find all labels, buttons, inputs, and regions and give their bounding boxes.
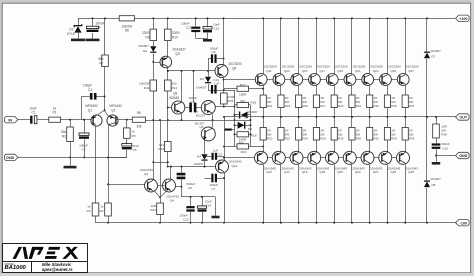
svg-text:R11: R11: [144, 86, 150, 90]
wire emitter Q15: [298, 85, 300, 95]
svg-text:R12: R12: [150, 208, 156, 212]
svg-text:IN: IN: [8, 118, 12, 122]
resistor R29 1R 5W: [331, 95, 337, 108]
svg-text:Q5: Q5: [176, 52, 180, 56]
wire R16 to first bottom emitter column: [249, 146, 264, 148]
wire collector Q18 to bottom rail: [316, 165, 318, 223]
svg-text:2SC5200: 2SC5200: [353, 65, 366, 69]
resistor R21 1R 5W: [260, 95, 266, 108]
wire R1 to Q1 base: [61, 119, 93, 121]
wire R25 to OUT rail: [298, 108, 300, 118]
resistor R14 3k3: [165, 80, 172, 91]
wire emitter Q27: [405, 85, 407, 95]
svg-text:R16: R16: [241, 150, 247, 154]
wire collector column Q13: [280, 18, 282, 74]
svg-text:33k: 33k: [136, 125, 142, 129]
wire D3 line y90: [208, 90, 235, 92]
capacitor C14 10uF: [202, 197, 204, 206]
svg-text:Q11: Q11: [266, 69, 272, 73]
capacitor C3 100pF feedback: [82, 96, 90, 98]
svg-text:3k3: 3k3: [239, 140, 244, 144]
wire Q1/Q2 emitters join: [96, 110, 109, 116]
resistor R36 1R 5W: [402, 128, 408, 141]
svg-text:R4: R4: [100, 209, 104, 213]
wire OUT rail to R26: [316, 117, 318, 128]
svg-text:33k: 33k: [61, 130, 67, 134]
svg-text:Q12: Q12: [266, 170, 272, 174]
svg-text:Q16: Q16: [302, 170, 308, 174]
wire R26 to Q18: [316, 140, 318, 152]
wire C10/C15 join to ground: [196, 38, 208, 40]
capacitor C15 10uF rail: [207, 18, 209, 26]
diode D5 1N4007: [235, 114, 240, 116]
wire collector Q22 to bottom rail: [351, 165, 353, 223]
svg-text:R25: R25: [303, 104, 309, 108]
svg-text:C16: C16: [442, 146, 448, 150]
svg-text:Q26: Q26: [390, 170, 396, 174]
svg-text:R38: R38: [441, 133, 447, 137]
svg-text:GND: GND: [6, 156, 15, 160]
svg-text:2SC5200: 2SC5200: [264, 65, 277, 69]
wire Q2 collector down: [108, 126, 110, 204]
wire R24 to Q16: [298, 140, 300, 152]
svg-text:R36: R36: [409, 137, 415, 141]
diode D2 1N4007: [153, 41, 155, 47]
svg-text:Q23: Q23: [373, 69, 379, 73]
wire R23 to OUT rail: [280, 108, 282, 118]
svg-text:D2: D2: [143, 49, 147, 53]
svg-text:C15: C15: [214, 26, 220, 30]
wire R21 to OUT rail: [263, 108, 265, 118]
wire top +V rail: [78, 18, 119, 20]
capacitor C11 1uF: [211, 85, 213, 94]
resistor R24 1R 5W: [296, 128, 302, 141]
svg-text:R28: R28: [338, 137, 344, 141]
wire top output base bus: [224, 79, 410, 81]
ground bar C15: [203, 39, 212, 42]
ground symbol on gnd line: [70, 157, 72, 165]
wire R12 top from y120 line: [160, 120, 162, 203]
capacitor C9 100uF bias bypass: [185, 107, 190, 109]
resistor R16 3k3: [224, 146, 237, 148]
svg-text:R29: R29: [338, 104, 344, 108]
capacitor C10 100nF rail: [195, 18, 197, 26]
transistor Q25 2SC5200: [380, 74, 392, 86]
svg-text:Q6: Q6: [199, 125, 203, 129]
transistor Q19 2SC5200: [326, 74, 338, 86]
svg-text:Q9: Q9: [232, 66, 236, 70]
transistor Q11 2SC5200: [255, 74, 267, 86]
wire feedback line y120 long: [146, 120, 251, 122]
svg-text:D7: D7: [432, 55, 436, 59]
svg-text:1N4007: 1N4007: [430, 49, 441, 53]
resistor R31 1R 5W: [349, 95, 355, 108]
transistor Q22 2SA1943: [343, 151, 356, 164]
svg-text:R23: R23: [285, 104, 291, 108]
label BA1000: [5, 265, 26, 271]
svg-text:C3: C3: [88, 88, 92, 92]
svg-text:Q3: Q3: [144, 172, 148, 176]
capacitor C16 100nF zobel: [436, 138, 438, 143]
resistor R6 33k feedback: [132, 117, 145, 122]
svg-text:R5: R5: [132, 134, 136, 138]
svg-text:Q15: Q15: [302, 69, 308, 73]
diode D4 1N4007: [201, 154, 207, 160]
terminal +100 supply: [456, 15, 470, 21]
diode D8 1N4007 clamp: [426, 117, 428, 181]
svg-text:220R: 220R: [172, 31, 180, 35]
svg-text:R27: R27: [320, 104, 326, 108]
svg-text:Q1: Q1: [88, 109, 92, 113]
svg-text:Q13: Q13: [284, 69, 290, 73]
capacitor C5 47uF: [126, 138, 128, 143]
wire R3 to bottom rail: [95, 216, 97, 223]
svg-text:2SC5200: 2SC5200: [406, 65, 419, 69]
transistor Q6 BC327: [201, 127, 215, 141]
svg-text:R26: R26: [320, 137, 326, 141]
ladder left spine: [234, 90, 236, 146]
capacitor C1 10uF input: [30, 116, 37, 124]
zobel network column: [436, 117, 438, 124]
wire R14 to Q8 base node: [167, 91, 169, 120]
svg-text:R3: R3: [87, 209, 91, 213]
transistor Q14 2SA1943: [272, 151, 285, 164]
svg-text:C1: C1: [31, 110, 35, 114]
ground bar for D1: [71, 39, 85, 42]
capacitor C7 100uF: [205, 178, 212, 180]
svg-text:ZY15: ZY15: [67, 32, 75, 36]
terminal GND output: [456, 152, 470, 158]
svg-text:D6: D6: [248, 127, 252, 131]
wire y197 line: [182, 196, 216, 198]
wire VAS bus y71: [168, 70, 215, 72]
svg-text:2SC5200: 2SC5200: [229, 62, 243, 66]
wire Q5 collector down: [167, 68, 169, 81]
resistor R38 10R 5W zobel: [433, 124, 440, 138]
resistor R33 1R 5W: [367, 95, 373, 108]
title block: author box: [31, 261, 88, 274]
transistor Q12 2SA1943: [255, 151, 268, 164]
resistor R12 10R: [157, 203, 164, 215]
wire Q10 emitter up to OUT rail: [224, 117, 226, 160]
wire collector Q14 to bottom rail: [280, 165, 282, 223]
resistor R34 1R 5W: [384, 128, 390, 141]
wire R17 to first emitter column: [249, 88, 264, 90]
resistor R35 1R 5W: [384, 95, 390, 108]
svg-text:R10: R10: [172, 36, 178, 40]
svg-text:C8: C8: [212, 50, 216, 54]
svg-text:2SC5200: 2SC5200: [317, 65, 330, 69]
svg-text:MPSA92: MPSA92: [109, 104, 122, 108]
resistor R37 1R 5W: [402, 95, 408, 108]
svg-text:R31: R31: [356, 104, 362, 108]
resistor R9 220R: [153, 18, 155, 29]
resistor R28 1R 5W: [331, 128, 337, 141]
svg-text:GND: GND: [459, 154, 468, 158]
wire collector Q24 to bottom rail: [369, 165, 371, 223]
wire to GND terminal: [435, 155, 437, 157]
wire OUT rail to R34: [387, 117, 389, 128]
wire bottom -V rail: [96, 222, 457, 224]
wire collector column Q23: [369, 18, 371, 74]
terminal OUT: [456, 114, 470, 120]
label MODEL: [5, 262, 16, 266]
wire collector Q20 to bottom rail: [334, 165, 336, 223]
transistor Q10 2SA1943 driver: [216, 160, 229, 173]
svg-text:R1: R1: [52, 110, 56, 114]
terminal IN: [4, 117, 18, 123]
transistor Q27 2SC5200: [397, 74, 409, 86]
wire Q4 right lead to C6 column: [176, 186, 182, 188]
resistor R3 1k: [92, 203, 99, 216]
wire R4 to bottom rail: [108, 216, 110, 223]
svg-text:R22: R22: [285, 137, 291, 141]
bias tap thick mark: [224, 129, 232, 131]
svg-text:R2: R2: [62, 134, 66, 138]
wire OUT rail to R22: [280, 117, 282, 128]
resistor R27 1R 5W: [313, 95, 319, 108]
wire down to Q3: [153, 162, 155, 179]
resistor R2 33k to ground: [70, 120, 72, 127]
resistor R13 9k1: [167, 120, 169, 142]
resistor R19 3k3: [235, 104, 238, 106]
wire OUT rail to R28: [334, 117, 336, 128]
wire Q7 collector line: [215, 106, 234, 108]
svg-text:1N4007: 1N4007: [430, 177, 441, 181]
svg-text:R30: R30: [356, 137, 362, 141]
svg-text:C14: C14: [206, 204, 212, 208]
svg-text:Q27: Q27: [408, 69, 414, 73]
svg-text:D4: D4: [197, 155, 201, 159]
transistor Q21 2SC5200: [344, 74, 356, 86]
svg-text:R37: R37: [409, 104, 415, 108]
svg-text:9k6: 9k6: [98, 57, 103, 61]
wire R29 to OUT rail: [334, 108, 336, 118]
capacitor C8 100uF bootstrap: [208, 58, 211, 60]
wire emitter Q19: [334, 85, 336, 95]
wire emitter Q21: [351, 85, 353, 95]
terminal -100 supply: [456, 220, 470, 226]
svg-text:Q20: Q20: [337, 170, 343, 174]
transistor Q1 MPSA92: [91, 115, 102, 126]
transistor Q7 BC337: [201, 101, 215, 115]
svg-text:BC337: BC337: [196, 114, 206, 118]
svg-text:Q21: Q21: [355, 69, 361, 73]
wire R30 to Q22: [351, 140, 353, 152]
wire Q6 emitter down through D4: [204, 140, 206, 154]
wire C1 to R1: [37, 119, 49, 121]
svg-text:Q14: Q14: [284, 170, 290, 174]
wire Q1 collector down: [95, 126, 97, 203]
diode D7 1N4007 clamp: [424, 52, 430, 58]
wire OUT rail to R20: [263, 117, 265, 128]
resistor R4 1k: [105, 203, 112, 216]
svg-text:BD681: BD681: [170, 96, 180, 100]
wire OUT rail to R32: [369, 117, 371, 128]
wire corner to R13 column: [153, 162, 168, 164]
wire collector column Q15: [298, 18, 300, 74]
svg-text:2SC5200: 2SC5200: [388, 65, 401, 69]
svg-text:Q28: Q28: [408, 170, 414, 174]
wire emitter Q17: [316, 85, 318, 95]
capacitor C2 100uF: [84, 120, 86, 133]
svg-text:Q17: Q17: [319, 69, 325, 73]
APEX logo: [6, 246, 86, 262]
wire Q3/Q4 bottom leads join to R12: [154, 191, 160, 198]
svg-text:R8: R8: [125, 29, 129, 33]
resistor R25 1R 5W: [296, 95, 302, 108]
wire Q3 base line: [108, 184, 145, 186]
svg-text:C7: C7: [212, 187, 216, 191]
svg-text:R9: R9: [145, 36, 149, 40]
wire OUT rail: [224, 116, 456, 118]
wire to R17: [224, 88, 238, 90]
transistor Q4 2SC4793: [163, 179, 176, 192]
svg-text:R24: R24: [303, 137, 309, 141]
svg-text:R33: R33: [374, 104, 380, 108]
svg-text:Q22: Q22: [355, 170, 361, 174]
transistor Q15 2SC5200: [291, 74, 303, 86]
resistor R23 1R 5W: [278, 95, 284, 108]
svg-text:D8: D8: [432, 183, 436, 187]
svg-text:MPSA92: MPSA92: [85, 104, 98, 108]
wire emitter Q13: [280, 85, 282, 95]
wire collector Q12 to bottom rail: [263, 165, 265, 223]
wire OUT rail to R24: [298, 117, 300, 128]
wire bottom output base bus: [224, 157, 410, 159]
resistor R18 140R: [235, 134, 238, 136]
resistor R30 1R 5W: [349, 128, 355, 141]
svg-text:R21: R21: [267, 104, 273, 108]
resistor R20 1R 5W: [260, 128, 266, 141]
resistor R22 1R 5W: [278, 128, 284, 141]
wire collector column Q25: [387, 18, 389, 74]
wire input: [18, 119, 30, 121]
svg-text:Q25: Q25: [390, 69, 396, 73]
sheet outer gray edges: [0, 0, 474, 3]
wire gnd line to C5: [108, 157, 127, 159]
svg-text:C6: C6: [188, 186, 192, 190]
transistor Q18 2SA1943: [308, 151, 321, 164]
wire OUT rail to R36: [405, 117, 407, 128]
wire Q3 to Q4 base: [158, 185, 165, 187]
transistor Q8 BD681 bias: [172, 101, 185, 114]
transistor Q3 2SC4793: [145, 179, 158, 192]
wire collector column Q11: [263, 18, 265, 74]
diode D6 1N4007: [235, 125, 238, 127]
terminal GND input: [4, 154, 18, 160]
svg-text:R15: R15: [228, 99, 234, 103]
svg-text:R17: R17: [240, 83, 246, 87]
wire R22 to Q14: [280, 140, 282, 152]
svg-text:2SA1837: 2SA1837: [173, 48, 186, 52]
transistor Q20 2SA1943: [326, 151, 339, 164]
transistor Q23 2SC5200: [362, 74, 374, 86]
wire R35 to OUT rail: [387, 108, 389, 118]
ground bar for C4: [86, 39, 100, 42]
wire diode clamp column: [426, 18, 428, 52]
resistor R17 180R: [237, 86, 249, 91]
wire R13 down: [167, 152, 169, 167]
wire R11 down to corner: [153, 91, 155, 162]
wire Q2 base to R6: [116, 119, 132, 121]
ground bar zobel: [432, 162, 441, 165]
wire R2 to gnd line: [70, 142, 72, 158]
wire Q10 collector to bottom rail: [224, 173, 226, 223]
wire Q4 top lead: [170, 167, 172, 180]
svg-text:Q4: Q4: [170, 199, 174, 203]
svg-text:D3: D3: [200, 77, 204, 81]
resistor R7 9k6 vertical: [104, 18, 106, 55]
wire collector Q28 to bottom rail: [405, 165, 407, 223]
svg-text:R32: R32: [374, 137, 380, 141]
svg-text:1N4007: 1N4007: [196, 86, 207, 90]
svg-text:2SC5200: 2SC5200: [300, 65, 313, 69]
resistor R32 1R 5W: [367, 128, 373, 141]
svg-text:2SC5200: 2SC5200: [335, 65, 348, 69]
label author name: [42, 262, 71, 267]
svg-text:-100: -100: [460, 221, 467, 225]
svg-text:220R: 220R: [142, 31, 150, 35]
wire collector column Q21: [351, 18, 353, 74]
capacitor C12 100nF: [190, 197, 192, 206]
wire emitter Q23: [369, 85, 371, 95]
wire R31 to OUT rail: [351, 108, 353, 118]
ground stub right of C14: [215, 197, 217, 216]
wire Q8 emitter down: [181, 114, 183, 120]
title block: logo box: [2, 243, 88, 262]
svg-text:Q10: Q10: [232, 164, 238, 168]
wire R32 to Q24: [369, 140, 371, 152]
wire R17 feed from bus: [223, 80, 225, 89]
svg-text:R20: R20: [267, 137, 273, 141]
ladder right spine: [250, 105, 252, 146]
transistor Q13 2SC5200: [273, 74, 285, 86]
svg-text:R35: R35: [391, 104, 397, 108]
svg-text:Q24: Q24: [373, 170, 379, 174]
svg-text:3k3: 3k3: [240, 99, 245, 103]
wire Q9 emitter to top base bus: [223, 77, 225, 79]
svg-text:+100: +100: [459, 17, 467, 21]
transistor Q24 2SA1943: [361, 151, 374, 164]
svg-text:C2: C2: [82, 147, 86, 151]
svg-text:Q18: Q18: [319, 170, 325, 174]
wire emitter Q25: [387, 85, 389, 95]
resistor R11 10k/2W: [150, 80, 157, 91]
wire R7 to Q1/Q2 emitters: [104, 67, 106, 111]
resistor R1 1k: [49, 117, 61, 122]
svg-text:C4: C4: [97, 26, 101, 30]
wire R28 to Q20: [334, 140, 336, 152]
capacitor C6 500uF bootstrap lower: [181, 167, 183, 173]
zener diode D1 ZY15: [78, 18, 80, 25]
svg-text:Q2: Q2: [111, 108, 115, 112]
resistor R10 220R: [167, 18, 169, 29]
svg-text:C9: C9: [191, 100, 195, 104]
svg-text:C10: C10: [186, 25, 192, 29]
wire R33 to OUT rail: [369, 108, 371, 118]
svg-text:R7: R7: [99, 61, 103, 65]
resistor R8 10k/2W horizontal: [119, 16, 134, 21]
svg-text:R34: R34: [391, 137, 397, 141]
wire driver base line y166.5: [167, 166, 217, 168]
svg-text:2SC5200: 2SC5200: [282, 65, 295, 69]
wire R34 to Q26: [387, 140, 389, 152]
capacitor C4 100uF: [92, 18, 94, 26]
transistor Q16 2SA1943: [290, 151, 303, 164]
svg-text:R18: R18: [251, 133, 257, 137]
wire R10 to Q5: [167, 41, 169, 57]
